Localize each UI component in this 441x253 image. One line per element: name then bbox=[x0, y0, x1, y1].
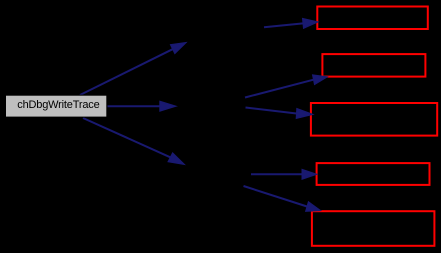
red box 4 (truncated callee) bbox=[317, 163, 430, 185]
hidden node 2 (black-on-black callee, top row) bbox=[187, 24, 264, 46]
hidden node 3 (black-on-black callee, middle row) bbox=[177, 92, 246, 114]
edge hidden node 4 -> red box 4 bbox=[251, 169, 317, 179]
node chDbgWriteTrace (root, grey) bbox=[6, 95, 107, 117]
red box 3 (truncated callee, two-line) bbox=[311, 103, 437, 136]
edge chDbgWriteTrace -> hidden node 3 (middle row) bbox=[108, 101, 177, 111]
red box 5 (truncated callee, two-line) bbox=[312, 211, 435, 246]
edge chDbgWriteTrace -> hidden node 2 (top row) bbox=[80, 43, 186, 96]
edge chDbgWriteTrace -> hidden node 4 (bottom row) bbox=[83, 118, 185, 165]
svg-text:chDbgWriteTrace: chDbgWriteTrace bbox=[17, 99, 99, 111]
edge hidden node 3 -> red box 3 bbox=[246, 108, 314, 119]
red box 1 (truncated callee) bbox=[317, 7, 428, 30]
red box 2 (truncated callee) bbox=[322, 54, 425, 77]
edge hidden node 2 -> red box 1 bbox=[264, 18, 318, 28]
edge hidden node 4 -> red box 5 bbox=[244, 186, 321, 211]
edge hidden node 3 -> red box 2 bbox=[245, 75, 327, 98]
hidden node 4 (black-on-black callee, bottom row) bbox=[185, 164, 251, 186]
